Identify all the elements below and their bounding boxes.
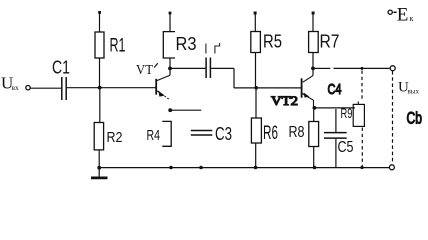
input terminal (26, 86, 30, 90)
wire emitter VT1 (171, 109, 201, 111)
label VT1 (136, 62, 158, 77)
svg-text:VT2: VT2 (271, 93, 298, 108)
rail junction C3 (199, 166, 203, 170)
resistor R8 (289, 108, 319, 167)
capacitor C1 (52, 58, 70, 101)
svg-text:Cb: Cb (407, 109, 423, 128)
svg-text:R5: R5 (263, 32, 282, 52)
label U_vyx (398, 80, 420, 96)
node collector VT2 (311, 67, 315, 71)
label U_vx (1, 74, 19, 93)
right edge dashed (392, 71, 394, 162)
svg-text:C4: C4 (328, 81, 342, 98)
supply terminal Ek (388, 5, 413, 26)
bottom rail (99, 167, 389, 169)
wire input to C1 (31, 87, 61, 89)
node load branch (361, 67, 364, 70)
ground (91, 166, 108, 178)
svg-text:C3: C3 (215, 124, 232, 144)
svg-text:к: к (410, 14, 414, 23)
node emitter VT1 (168, 108, 172, 112)
svg-text:R6: R6 (263, 123, 278, 144)
resistor R4 (half box) (147, 121, 172, 146)
capacitor C3 (191, 124, 232, 144)
wire emitter VT2 (316, 107, 355, 109)
rail junction R6 (254, 166, 258, 170)
svg-text:C1: C1 (52, 58, 70, 78)
resistor R3 (163, 12, 196, 67)
resistor R5 (251, 12, 282, 87)
rail junction R4 (169, 166, 173, 170)
wire collector VT2 to output (315, 67, 390, 69)
transistor VT2 (302, 69, 314, 107)
capacitor C5 (324, 109, 354, 167)
node collector VT1 (168, 67, 172, 71)
transistor VT1 (156, 69, 170, 100)
rail junction R8 (313, 166, 317, 170)
node divider VT2 base (254, 86, 258, 90)
capacitor C2 (206, 58, 210, 79)
resistor R7 (309, 12, 340, 68)
label C2 (degraded) (206, 43, 220, 54)
rail junction Rn (360, 166, 363, 169)
output terminal (390, 66, 395, 71)
svg-text:R1: R1 (110, 36, 126, 57)
resistor R2 (94, 89, 122, 167)
node base VT1 (98, 86, 102, 90)
svg-text:вых: вых (408, 88, 420, 96)
svg-text:R8: R8 (289, 124, 305, 141)
svg-text:R4: R4 (147, 127, 161, 144)
svg-text:вх: вх (12, 83, 20, 92)
wire C2 to VT2 base (211, 68, 301, 88)
load resistor R9 branch (341, 71, 365, 167)
bottom right terminal (389, 165, 394, 170)
node emitter VT2 (313, 106, 317, 110)
svg-text:VT: VT (136, 62, 154, 77)
wire C1 to base node (67, 87, 156, 89)
wire collector VT1 to C2 (172, 67, 206, 69)
svg-text:C5: C5 (338, 139, 354, 156)
resistor R1 (95, 11, 126, 86)
svg-text:E: E (397, 5, 409, 26)
resistor R6 (251, 89, 278, 167)
svg-text:R3: R3 (176, 33, 197, 54)
svg-text:R2: R2 (107, 129, 123, 146)
svg-text:R7: R7 (320, 32, 340, 52)
